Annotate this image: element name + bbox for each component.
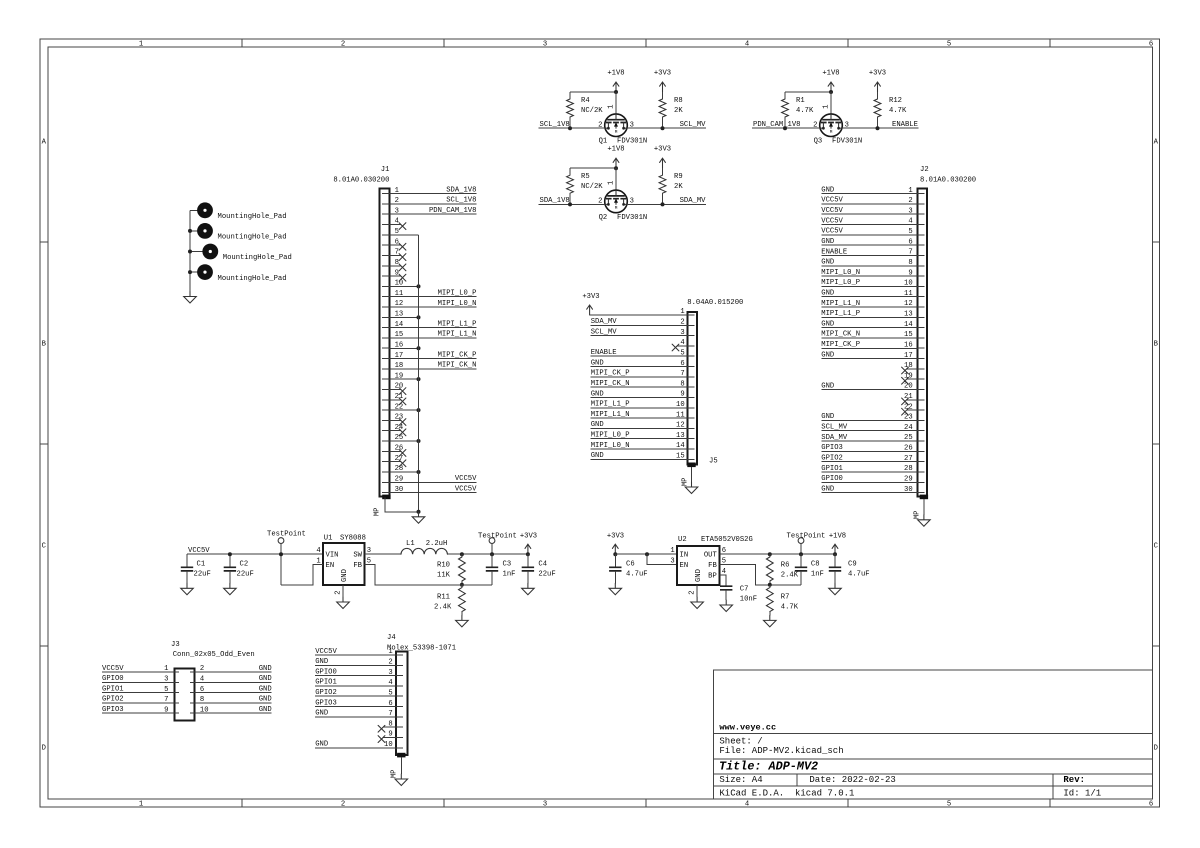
wire gate top xyxy=(570,167,616,169)
wire J1 pin 18 MIPI_CK_N xyxy=(389,362,476,370)
capacitor C3 1nF xyxy=(486,554,516,585)
svg-text:1: 1 xyxy=(139,801,143,809)
wire J3 pin 10 GND xyxy=(195,706,272,714)
svg-text:EN: EN xyxy=(680,562,689,570)
svg-text:MP: MP xyxy=(913,511,921,520)
ground C1 xyxy=(181,583,194,595)
svg-text:PDN_CAM_1V8: PDN_CAM_1V8 xyxy=(429,207,476,215)
wire J4 pin 6 GPIO3 xyxy=(315,699,396,707)
wire J2 pin 5 VCC5V xyxy=(821,228,917,236)
wire J1 pin 19 GND xyxy=(389,378,418,380)
svg-text:2: 2 xyxy=(341,801,345,809)
svg-text:VCC5V: VCC5V xyxy=(821,207,843,215)
svg-text:FDV301N: FDV301N xyxy=(617,214,647,222)
svg-text:MountingHole_Pad: MountingHole_Pad xyxy=(223,254,292,262)
mounting hole pad H1 xyxy=(190,202,287,221)
svg-text:FB: FB xyxy=(708,562,717,570)
wire J2 pin 8 GND xyxy=(821,259,917,267)
wire J2 pin 20 GND xyxy=(821,382,917,390)
svg-text:6: 6 xyxy=(1149,801,1153,809)
no-connect J1 pin 23 xyxy=(389,419,406,426)
svg-text:4: 4 xyxy=(745,801,749,809)
ground C2 xyxy=(224,583,237,595)
svg-text:GND: GND xyxy=(821,320,834,328)
no-connect J2 pin 19 xyxy=(902,377,918,384)
wire U1 GND pin xyxy=(342,585,344,597)
svg-text:J4: J4 xyxy=(387,634,396,642)
svg-text:SDA_1V8: SDA_1V8 xyxy=(540,197,570,205)
svg-text:Conn_02x05_Odd_Even: Conn_02x05_Odd_Even xyxy=(173,651,255,659)
svg-text:2: 2 xyxy=(341,41,345,49)
svg-text:+3V3: +3V3 xyxy=(654,146,671,154)
svg-text:2.4K: 2.4K xyxy=(434,604,452,612)
no-connect J2 pin 21 xyxy=(902,398,918,405)
wire J2 pin 12 MIPI_L1_N xyxy=(821,300,917,308)
wire J2 pin 9 MIPI_L0_N xyxy=(821,269,917,277)
no-connect J1 pin 24 xyxy=(389,429,406,436)
no-connect J1 pin 9 xyxy=(389,274,406,281)
svg-text:VCC5V: VCC5V xyxy=(821,217,843,225)
wire J2 pin 29 GPIO0 xyxy=(821,475,917,483)
wire U1 EN loop xyxy=(281,565,323,585)
junction xyxy=(526,552,530,556)
svg-text:MIPI_L0_P: MIPI_L0_P xyxy=(438,290,477,298)
svg-text:GPIO1: GPIO1 xyxy=(821,465,843,473)
svg-text:NC/2K: NC/2K xyxy=(581,183,603,191)
wire J1 pin 1 SDA_1V8 xyxy=(389,186,476,194)
wire J5 MP pin xyxy=(691,467,693,482)
wire J1 pin 30 VCC5V xyxy=(389,485,477,493)
svg-text:4: 4 xyxy=(745,41,749,49)
resistor R7 4.7K xyxy=(766,585,798,616)
svg-text:R1: R1 xyxy=(796,97,805,105)
svg-text:B: B xyxy=(1154,340,1159,348)
svg-text:Q2: Q2 xyxy=(599,214,608,222)
svg-text:GND: GND xyxy=(695,569,703,582)
svg-text:GND: GND xyxy=(259,696,272,704)
wire J1 pin 15 MIPI_L1_N xyxy=(389,331,476,339)
op-amp U2 ETA5052V0S2G xyxy=(670,536,752,595)
svg-text:2.2uH: 2.2uH xyxy=(426,540,448,548)
no-connect J5 pin 4 xyxy=(672,344,687,351)
svg-text:GND: GND xyxy=(821,238,834,246)
svg-text:4.7K: 4.7K xyxy=(889,107,907,115)
ground U1 xyxy=(337,597,350,609)
power +1V8 Q1 xyxy=(607,69,624,92)
wire J4 pin 1 VCC5V xyxy=(315,648,396,656)
svg-text:D: D xyxy=(42,744,46,752)
svg-text:1: 1 xyxy=(607,105,615,109)
wire J2 pin 25 SDA_MV xyxy=(821,434,917,442)
testpoint TP2 xyxy=(478,532,517,554)
wire J5 pin 10 MIPI_L1_P xyxy=(591,401,688,409)
wire J2 pin 26 GPIO3 xyxy=(821,444,917,452)
junction xyxy=(417,315,421,319)
svg-text:R4: R4 xyxy=(581,97,590,105)
svg-text:ENABLE: ENABLE xyxy=(821,248,847,256)
wire J1 pin 13 GND xyxy=(389,316,418,318)
wire U2 FB loop xyxy=(719,565,801,585)
wire J2 pin 13 MIPI_L1_P xyxy=(821,310,917,318)
svg-text:MIPI_CK_P: MIPI_CK_P xyxy=(438,351,477,359)
wire J3 pin 4 GND xyxy=(195,675,272,683)
svg-text:+1V8: +1V8 xyxy=(607,69,624,77)
junction xyxy=(417,346,421,350)
svg-text:GND: GND xyxy=(259,665,272,673)
wire J2 pin 2 VCC5V xyxy=(821,197,917,205)
wire J1 pin 11 MIPI_L0_P xyxy=(389,290,476,298)
wire J5 pin 1 xyxy=(590,314,688,316)
wire J5 pin 11 MIPI_L1_N xyxy=(591,411,688,419)
junction xyxy=(829,90,833,94)
svg-text:U1: U1 xyxy=(324,534,333,542)
svg-text:GND: GND xyxy=(821,382,834,390)
svg-text:R8: R8 xyxy=(674,97,683,105)
junction xyxy=(783,126,787,130)
svg-text:C: C xyxy=(42,542,47,550)
ground R11 xyxy=(456,615,469,627)
svg-text:GND: GND xyxy=(821,186,834,194)
resistor R6 2.4K xyxy=(766,554,798,585)
svg-text:6: 6 xyxy=(1149,41,1153,49)
svg-text:Q1: Q1 xyxy=(599,138,608,146)
svg-text:C3: C3 xyxy=(503,560,512,568)
svg-text:MIPI_L0_P: MIPI_L0_P xyxy=(821,279,860,287)
svg-text:Rev:: Rev: xyxy=(1063,775,1085,785)
svg-text:C4: C4 xyxy=(538,560,547,568)
wire J2 pin 10 MIPI_L0_P xyxy=(821,279,917,287)
capacitor C4 22uF xyxy=(522,554,556,583)
wire J1 pin 22 GND xyxy=(389,409,418,411)
resistor R5 xyxy=(567,168,604,204)
svg-text:OUT: OUT xyxy=(704,552,718,560)
wire J3 pin 6 GND xyxy=(195,685,272,693)
svg-text:SDA_MV: SDA_MV xyxy=(591,318,618,326)
mounting hole pad H4 xyxy=(190,264,287,283)
junction xyxy=(768,552,772,556)
resistor R12 xyxy=(874,92,907,128)
wire J1 pin 25 GND xyxy=(389,440,418,442)
svg-text:2: 2 xyxy=(335,590,343,594)
junction xyxy=(490,552,494,556)
svg-text:BP: BP xyxy=(708,573,717,581)
wire J2 pin 14 GND xyxy=(821,320,917,328)
svg-text:FDV301N: FDV301N xyxy=(617,138,647,146)
node SDA_MV xyxy=(627,197,706,205)
svg-text:FDV301N: FDV301N xyxy=(832,138,862,146)
ground U2 xyxy=(691,597,704,609)
svg-text:GPIO3: GPIO3 xyxy=(102,706,124,714)
wire J3 pin 1 VCC5V xyxy=(102,665,175,673)
svg-text:GPIO3: GPIO3 xyxy=(315,699,337,707)
svg-text:GPIO0: GPIO0 xyxy=(315,668,337,676)
svg-text:SCL_MV: SCL_MV xyxy=(821,424,848,432)
svg-text:Id: 1/1: Id: 1/1 xyxy=(1063,788,1101,798)
svg-text:R7: R7 xyxy=(781,594,790,602)
no-connect J1 pin 7 xyxy=(389,254,406,261)
svg-text:C8: C8 xyxy=(811,560,820,568)
svg-text:MountingHole_Pad: MountingHole_Pad xyxy=(218,213,287,221)
wire J1 pin 2 SCL_1V8 xyxy=(389,197,476,205)
svg-text:File: ADP-MV2.kicad_sch: File: ADP-MV2.kicad_sch xyxy=(719,746,843,756)
testpoint TP1 xyxy=(267,530,306,585)
power +3V3 U1 out xyxy=(520,532,537,554)
svg-text:SDA_1V8: SDA_1V8 xyxy=(446,186,476,194)
no-connect J1 pin 21 xyxy=(389,398,406,405)
title block sheet/file xyxy=(719,737,843,757)
svg-text:GND: GND xyxy=(591,421,604,429)
power +3V3 Q3 xyxy=(869,69,886,92)
svg-text:+1V8: +1V8 xyxy=(607,146,624,154)
connector J3 Conn_02x05_Odd_Even xyxy=(164,641,254,720)
wire J4 pin 2 GND xyxy=(315,658,396,666)
no-connect J4 pin 8 xyxy=(378,725,396,732)
wire J5 pin 7 MIPI_CK_P xyxy=(591,370,688,378)
capacitor C9 4.7uF xyxy=(829,554,870,583)
svg-text:GND: GND xyxy=(259,675,272,683)
svg-text:C: C xyxy=(1154,542,1159,550)
wire J5 pin 9 GND xyxy=(591,390,688,398)
junction xyxy=(614,166,618,170)
no-connect J4 pin 9 xyxy=(378,736,396,743)
svg-text:Size: A4: Size: A4 xyxy=(719,775,762,785)
svg-text:www.veye.cc: www.veye.cc xyxy=(719,723,776,733)
junction xyxy=(417,377,421,381)
svg-text:FB: FB xyxy=(353,562,362,570)
wire VCC5V to U1 xyxy=(187,553,323,555)
svg-text:M: M xyxy=(615,130,618,135)
no-connect J1 pin 8 xyxy=(389,264,406,271)
svg-text:GND: GND xyxy=(821,485,834,493)
svg-text:TestPoint: TestPoint xyxy=(787,532,826,540)
connector J1 8.01A0.030200 xyxy=(333,166,403,516)
junction xyxy=(645,552,649,556)
svg-text:4.7K: 4.7K xyxy=(796,107,814,115)
svg-text:ENABLE: ENABLE xyxy=(591,349,617,357)
mounting hole pad H3 xyxy=(190,244,292,263)
svg-text:MIPI_L1_P: MIPI_L1_P xyxy=(591,401,630,409)
wire J2 MP pin xyxy=(923,499,925,515)
junction xyxy=(228,552,232,556)
wire J2 pin 3 VCC5V xyxy=(821,207,917,215)
wire J2 pin 15 MIPI_CK_N xyxy=(821,331,917,339)
junction xyxy=(661,126,665,130)
wire J5 pin 2 SDA_MV xyxy=(591,318,688,326)
junction xyxy=(417,408,421,412)
wire J5 pin 13 MIPI_L0_P xyxy=(591,432,688,440)
svg-text:SY8088: SY8088 xyxy=(340,534,366,542)
wire U2 BP to C7 xyxy=(719,575,726,586)
resistor R8 xyxy=(659,92,683,128)
capacitor C1 22uF xyxy=(181,554,211,583)
svg-text:R10: R10 xyxy=(437,561,450,569)
capacitor C8 1nF xyxy=(795,554,824,585)
ground mounting holes xyxy=(184,292,197,304)
svg-text:B: B xyxy=(42,340,47,348)
ground J5 xyxy=(685,482,698,494)
svg-text:VCC5V: VCC5V xyxy=(315,648,337,656)
svg-text:MIPI_L0_P: MIPI_L0_P xyxy=(591,432,630,440)
svg-text:MIPI_CK_N: MIPI_CK_N xyxy=(821,331,860,339)
svg-text:22uF: 22uF xyxy=(237,571,254,579)
svg-text:GND: GND xyxy=(591,452,604,460)
power +3V3 Q2 xyxy=(654,146,671,169)
connector J2 8.01A0.030200 xyxy=(904,166,976,519)
wire J2 pin 4 VCC5V xyxy=(821,217,917,225)
svg-text:1nF: 1nF xyxy=(503,571,516,579)
svg-text:GPIO1: GPIO1 xyxy=(102,685,124,693)
no-connect J1 pin 4 xyxy=(389,223,406,230)
svg-text:J5: J5 xyxy=(709,457,718,465)
wire L1 to C4 xyxy=(447,553,528,555)
svg-text:+3V3: +3V3 xyxy=(607,532,624,540)
wire J4 pin 4 GPIO1 xyxy=(315,679,396,687)
svg-text:Q3: Q3 xyxy=(814,138,823,146)
svg-text:MIPI_CK_N: MIPI_CK_N xyxy=(438,362,477,370)
svg-text:A: A xyxy=(42,138,47,146)
ground C6 xyxy=(609,583,622,595)
svg-text:D: D xyxy=(1154,744,1158,752)
svg-text:+1V8: +1V8 xyxy=(829,532,846,540)
svg-text:NC/2K: NC/2K xyxy=(581,107,603,115)
svg-text:4.7uF: 4.7uF xyxy=(848,571,870,579)
svg-text:4.7K: 4.7K xyxy=(781,604,799,612)
wire J1 MP pin xyxy=(385,498,418,512)
wire J2 pin 24 SCL_MV xyxy=(821,424,917,432)
resistor R10 11K xyxy=(437,554,465,585)
wire J2 pin 17 GND xyxy=(821,351,917,359)
wire J5 pin 5 ENABLE xyxy=(591,349,688,357)
svg-text:GND: GND xyxy=(315,658,328,666)
resistor R9 xyxy=(659,168,683,204)
title block frame xyxy=(714,670,1153,799)
connector J4 Molex_53398-1071 xyxy=(384,634,456,778)
svg-text:1: 1 xyxy=(670,547,674,555)
wire J1 ground bus xyxy=(418,235,420,512)
no-connect J1 pin 6 xyxy=(389,243,406,250)
wire J2 pin 11 GND xyxy=(821,290,917,298)
svg-text:SCL_1V8: SCL_1V8 xyxy=(540,121,570,129)
svg-text:ENABLE: ENABLE xyxy=(892,121,918,129)
wire J2 pin 6 GND xyxy=(821,238,917,246)
wire J4 pin 3 GPIO0 xyxy=(315,668,396,676)
svg-text:C9: C9 xyxy=(848,560,857,568)
capacitor C6 4.7uF xyxy=(609,554,647,583)
svg-text:3: 3 xyxy=(543,801,547,809)
junction xyxy=(417,439,421,443)
svg-text:+3V3: +3V3 xyxy=(654,69,671,77)
power +1V8 Q3 xyxy=(822,69,839,92)
node PDN_CAM_1V8 xyxy=(752,121,820,129)
svg-text:J1: J1 xyxy=(381,166,390,174)
svg-text:22uF: 22uF xyxy=(538,571,555,579)
wire J4 pin 5 GPIO2 xyxy=(315,689,396,697)
no-connect J1 pin 20 xyxy=(389,388,406,395)
resistor R4 xyxy=(567,92,604,128)
wire J2 pin 28 GPIO1 xyxy=(821,465,917,473)
svg-text:MIPI_L0_N: MIPI_L0_N xyxy=(821,269,860,277)
svg-text:1: 1 xyxy=(822,105,830,109)
svg-text:VCC5V: VCC5V xyxy=(455,485,477,493)
svg-text:SDA_MV: SDA_MV xyxy=(680,197,707,205)
svg-text:3: 3 xyxy=(543,41,547,49)
junction xyxy=(799,552,803,556)
wire OUT to +1V8 xyxy=(719,553,835,555)
svg-text:EN: EN xyxy=(326,562,335,570)
svg-text:GND: GND xyxy=(821,259,834,267)
svg-text:TestPoint: TestPoint xyxy=(267,530,306,538)
power +3V3 Q1 xyxy=(654,69,671,92)
svg-text:22uF: 22uF xyxy=(194,571,211,579)
svg-text:R5: R5 xyxy=(581,173,590,181)
wire J3 pin 8 GND xyxy=(195,696,272,704)
svg-text:MIPI_L0_N: MIPI_L0_N xyxy=(438,300,477,308)
svg-text:SW: SW xyxy=(353,552,362,560)
svg-text:GPIO3: GPIO3 xyxy=(821,444,843,452)
junction xyxy=(188,229,192,233)
node SDA_1V8 xyxy=(539,197,606,205)
svg-text:SCL_MV: SCL_MV xyxy=(680,121,707,129)
ground R7 xyxy=(764,615,777,627)
svg-text:KiCad E.D.A. kicad 7.0.1: KiCad E.D.A. kicad 7.0.1 xyxy=(719,788,854,798)
svg-text:+1V8: +1V8 xyxy=(822,69,839,77)
svg-text:GND: GND xyxy=(821,290,834,298)
svg-text:MIPI_L1_N: MIPI_L1_N xyxy=(438,331,477,339)
border column labels xyxy=(139,41,1153,809)
junction xyxy=(460,552,464,556)
wire J1 pin 14 MIPI_L1_P xyxy=(389,320,476,328)
svg-text:MP: MP xyxy=(681,478,689,487)
op-amp U1 SY8088 xyxy=(316,534,371,595)
junction xyxy=(417,510,421,514)
wire J1 pin 5 GND xyxy=(389,234,418,236)
wire J2 pin 30 GND xyxy=(821,485,917,493)
svg-text:Date: 2022-02-23: Date: 2022-02-23 xyxy=(809,775,895,785)
border row labels xyxy=(42,138,1159,752)
svg-text:MIPI_L1_P: MIPI_L1_P xyxy=(821,310,860,318)
svg-text:MIPI_L1_N: MIPI_L1_N xyxy=(591,411,630,419)
svg-text:4: 4 xyxy=(316,547,320,555)
junction xyxy=(768,583,772,587)
svg-text:3: 3 xyxy=(670,558,674,566)
junction xyxy=(876,126,880,130)
svg-text:SDA_MV: SDA_MV xyxy=(821,434,848,442)
svg-text:VCC5V: VCC5V xyxy=(821,197,843,205)
wire J1 pin 12 MIPI_L0_N xyxy=(389,300,476,308)
junction xyxy=(279,552,283,556)
svg-text:2: 2 xyxy=(689,590,697,594)
wire J1 pin 16 GND xyxy=(389,347,418,349)
power +3V3 U2 in xyxy=(607,532,624,554)
svg-text:Title: ADP-MV2: Title: ADP-MV2 xyxy=(719,759,818,773)
svg-text:4.7uF: 4.7uF xyxy=(626,571,648,579)
svg-text:MountingHole_Pad: MountingHole_Pad xyxy=(218,275,287,283)
wire J1 pin 29 VCC5V xyxy=(389,475,477,483)
resistor R1 xyxy=(782,92,814,128)
svg-text:C6: C6 xyxy=(626,560,635,568)
svg-text:VIN: VIN xyxy=(326,552,339,560)
junction xyxy=(188,250,192,254)
svg-text:GND: GND xyxy=(315,710,328,718)
svg-text:MountingHole_Pad: MountingHole_Pad xyxy=(218,234,287,242)
no-connect J2 pin 18 xyxy=(902,367,918,374)
svg-text:1nF: 1nF xyxy=(811,571,824,579)
capacitor C2 22uF xyxy=(224,554,254,583)
svg-text:C1: C1 xyxy=(197,560,206,568)
svg-text:GPIO2: GPIO2 xyxy=(821,454,843,462)
wire J5 pin 3 SCL_MV xyxy=(591,328,688,336)
svg-text:1: 1 xyxy=(139,41,143,49)
